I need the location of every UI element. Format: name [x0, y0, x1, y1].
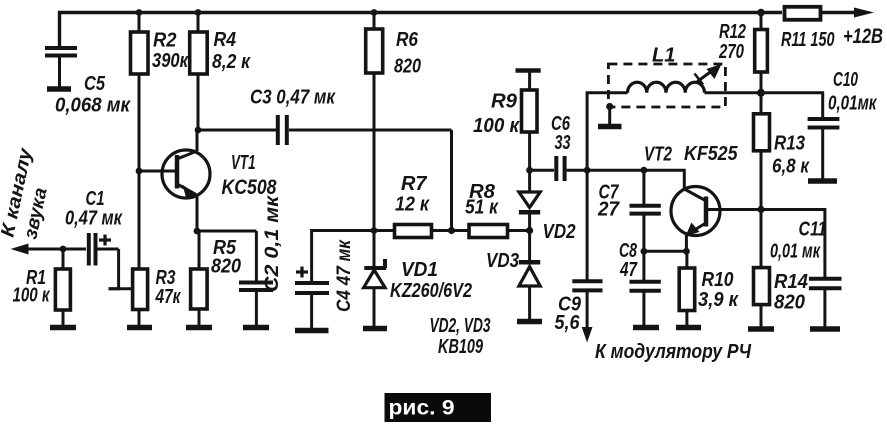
- resistor R13: [754, 93, 770, 210]
- svg-text:VT1: VT1: [231, 152, 256, 174]
- ground below C10: [808, 178, 837, 184]
- ground below C5: [47, 86, 71, 92]
- resistor R5: [191, 231, 208, 326]
- node R6 / R7 / VD1 junction: [371, 227, 378, 234]
- capacitor C8: [630, 251, 661, 326]
- node VT2 emitter junction: [683, 248, 690, 255]
- varicap VD3: [519, 231, 540, 321]
- svg-text:820: 820: [774, 292, 805, 314]
- svg-text:VD2: VD2: [543, 221, 576, 243]
- resistor R4: [190, 13, 208, 131]
- svg-text:R10: R10: [702, 269, 734, 291]
- transistor VT2: [644, 170, 761, 251]
- svg-text:R11 150: R11 150: [781, 29, 835, 51]
- svg-text:390к: 390к: [152, 50, 189, 72]
- resistor R7: [374, 225, 452, 238]
- wire top rail right of R11 with arrow to +12V: [821, 11, 861, 14]
- svg-text:3,9 к: 3,9 к: [698, 289, 739, 311]
- capacitor C2: [197, 231, 273, 326]
- resistor R1: [55, 249, 70, 326]
- svg-text:С11: С11: [799, 219, 827, 241]
- capacitor C3: [198, 115, 452, 145]
- ground below VD1: [363, 326, 387, 332]
- svg-text:R9: R9: [491, 91, 518, 113]
- capacitor C4: [295, 231, 374, 330]
- L1 tuning arrow: [695, 64, 722, 85]
- svg-text:47: 47: [619, 259, 637, 281]
- svg-text:KC508: KC508: [222, 176, 277, 199]
- svg-text:KB109: KB109: [438, 336, 484, 358]
- svg-text:100 к: 100 к: [13, 285, 51, 307]
- svg-text:270: 270: [718, 41, 744, 63]
- figure caption box: [385, 393, 492, 422]
- ground below VD3: [517, 319, 542, 325]
- capacitor C1: [89, 233, 133, 289]
- wire C3 to R7-R8 node: [450, 130, 453, 231]
- label VD2 VD3 types: [430, 315, 491, 358]
- svg-text:R2: R2: [153, 30, 177, 52]
- svg-text:C3 0,47 мк: C3 0,47 мк: [250, 87, 336, 109]
- node R9 / VD2 / C6 junction: [526, 167, 533, 174]
- capacitor C9: [572, 170, 602, 330]
- svg-text:0,01 мк: 0,01 мк: [770, 241, 821, 263]
- svg-text:12 к: 12 к: [395, 194, 430, 216]
- wire top supply rail left segment: [60, 13, 783, 47]
- node input / R1: [60, 246, 67, 253]
- C1 plus sign: [99, 235, 111, 246]
- ground below R1: [50, 325, 76, 331]
- svg-text:33: 33: [555, 132, 571, 154]
- capacitor C11: [761, 210, 842, 328]
- node shield ground tap: [606, 103, 613, 110]
- svg-text:27: 27: [597, 199, 620, 221]
- resistor R2: [131, 13, 149, 172]
- C4 plus sign: [296, 267, 308, 278]
- inductor L1: [587, 82, 761, 170]
- svg-text:L1: L1: [652, 45, 676, 67]
- svg-text:820: 820: [211, 256, 241, 278]
- svg-text:рис. 9: рис. 9: [389, 397, 455, 420]
- svg-text:51 к: 51 к: [465, 197, 499, 219]
- node C7 / C8 tap: [641, 248, 648, 255]
- svg-text:C10: C10: [833, 69, 858, 91]
- svg-text:6,8 к: 6,8 к: [772, 156, 810, 178]
- capacitor C7: [630, 170, 661, 251]
- node VT2 base / C7 junction: [641, 167, 648, 174]
- svg-text:+12В: +12В: [843, 25, 883, 48]
- node R2 top: [136, 9, 143, 16]
- varicap VD2: [519, 170, 540, 230]
- svg-text:R6: R6: [396, 29, 419, 51]
- svg-text:VD1: VD1: [401, 259, 438, 281]
- resistor R12: [755, 13, 768, 93]
- ground below C8: [633, 325, 659, 331]
- svg-text:R4: R4: [214, 29, 237, 51]
- svg-text:KZ260/6V2: KZ260/6V2: [390, 280, 472, 302]
- svg-text:C5: C5: [84, 73, 106, 95]
- node VT1 base junction: [136, 168, 143, 175]
- ground below R10: [676, 325, 701, 331]
- svg-text:VD3: VD3: [486, 250, 519, 272]
- node VT2 collector junction: [757, 206, 764, 213]
- label input net: [0, 145, 52, 241]
- resistor R6: [366, 13, 383, 231]
- node R6 top: [371, 9, 378, 16]
- svg-text:47к: 47к: [155, 286, 181, 308]
- resistor R14: [754, 210, 770, 328]
- svg-text:100 к: 100 к: [473, 115, 520, 137]
- L1 shield dashed box: [608, 64, 725, 107]
- capacitor C10: [761, 93, 839, 179]
- svg-text:C2 0,1 мк: C2 0,1 мк: [262, 194, 283, 292]
- node C6 / L1 / C9 junction: [584, 167, 591, 174]
- svg-text:R12: R12: [719, 21, 746, 43]
- svg-text:R7: R7: [401, 173, 427, 195]
- node VD2 / VD3 / R8 junction: [526, 227, 533, 234]
- svg-text:R14: R14: [774, 271, 808, 293]
- capacitor C6: [530, 156, 588, 181]
- svg-text:8,2 к: 8,2 к: [212, 51, 251, 73]
- svg-text:KF525: KF525: [684, 143, 738, 165]
- resistor R3: [133, 269, 148, 326]
- ground below C11: [810, 326, 840, 332]
- ground of L1 shield: [598, 107, 622, 127]
- resistor R8: [452, 225, 530, 238]
- node L1 / R12 / R13 / C10 junction: [757, 89, 765, 97]
- svg-text:0,068 мк: 0,068 мк: [55, 95, 131, 117]
- zener diode VD1: [364, 231, 387, 328]
- svg-text:820: 820: [394, 56, 421, 78]
- ground below R5: [186, 325, 212, 331]
- resistor R9 with terminal bar: [516, 71, 541, 171]
- svg-text:R13: R13: [774, 133, 805, 155]
- output arrow to RF modulator: [582, 327, 593, 343]
- node R4 top: [195, 9, 202, 16]
- svg-text:К модулятору РЧ: К модулятору РЧ: [595, 341, 752, 363]
- svg-text:0,01мк: 0,01мк: [828, 93, 877, 115]
- svg-text:5,6: 5,6: [555, 312, 581, 334]
- node VT1 emitter junction: [194, 228, 201, 235]
- wire C6 node to VT2 base node: [587, 169, 644, 172]
- wire input with arrow: [11, 244, 87, 255]
- node VT1 collector / C3 junction: [195, 127, 202, 134]
- node R7 / R8 / C3 junction: [448, 227, 455, 234]
- svg-text:VT2: VT2: [644, 144, 672, 166]
- wire base junction to R3: [138, 171, 141, 269]
- svg-text:0,47 мк: 0,47 мк: [65, 208, 123, 230]
- ground below R14: [748, 326, 774, 332]
- ground below R3: [127, 325, 152, 331]
- resistor R10: [679, 251, 695, 326]
- ground below C4: [295, 328, 329, 334]
- transistor VT1: [139, 130, 210, 231]
- svg-text:C4 47 мк: C4 47 мк: [334, 239, 355, 312]
- node rail / R12 / R11 junction: [757, 9, 765, 17]
- node rail arrow head: [854, 8, 874, 18]
- capacitor C5: [45, 48, 77, 87]
- ground below C2: [243, 325, 269, 331]
- wire emitter to C7/C8 tap: [644, 250, 687, 253]
- resistor R11: [785, 7, 821, 20]
- svg-text:VD2, VD3: VD2, VD3: [430, 315, 491, 337]
